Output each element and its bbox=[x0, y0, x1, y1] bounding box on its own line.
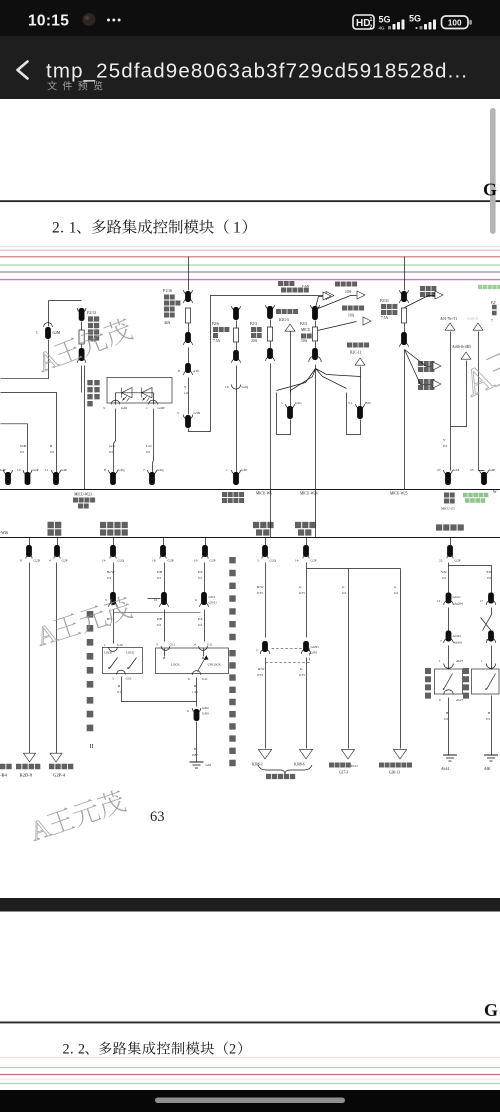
arrow up 4R3 bbox=[461, 352, 471, 359]
svg-text:CAN: CAN bbox=[302, 284, 310, 288]
svg-text:G61: G61 bbox=[206, 763, 212, 767]
wire loop bbox=[347, 393, 361, 435]
page2 colored rule 3 bbox=[0, 1074, 500, 1076]
svg-text:2: 2 bbox=[229, 1042, 236, 1058]
svg-text:-W26: -W26 bbox=[0, 531, 8, 535]
wire bbox=[188, 348, 190, 364]
svg-text:A10: A10 bbox=[193, 369, 199, 373]
svg-text:3: 3 bbox=[112, 677, 114, 681]
wire stub left 2 bbox=[114, 612, 201, 614]
svg-text:1: 1 bbox=[36, 331, 38, 335]
MICU bus line bbox=[0, 489, 500, 491]
svg-text:0.5: 0.5 bbox=[443, 444, 448, 448]
wire P/B bbox=[164, 563, 166, 593]
svg-text:5G: 5G bbox=[409, 14, 421, 24]
svg-text:0.5: 0.5 bbox=[342, 591, 347, 595]
svg-text:B/Y: B/Y bbox=[107, 617, 113, 621]
svg-text:G2P: G2P bbox=[33, 468, 39, 472]
svg-text:P/B: P/B bbox=[157, 570, 163, 574]
dashed link vertical bbox=[309, 649, 311, 663]
svg-text:Ab27: Ab27 bbox=[456, 698, 463, 702]
svg-text:B2D-8: B2D-8 bbox=[20, 773, 33, 778]
svg-text:100: 100 bbox=[448, 19, 462, 28]
wire R/W bbox=[265, 563, 267, 638]
svg-text:G2Q: G2Q bbox=[157, 468, 164, 472]
svg-text:G2P: G2P bbox=[489, 468, 495, 472]
svg-text:LOCK: LOCK bbox=[171, 663, 180, 667]
photodiode D2 bbox=[142, 388, 153, 398]
svg-text:1: 1 bbox=[146, 406, 148, 410]
svg-text:19: 19 bbox=[225, 385, 229, 389]
svg-text:MICU-W25: MICU-W25 bbox=[390, 492, 408, 496]
svg-text:LOCK: LOCK bbox=[104, 651, 113, 655]
svg-text:G2P-4: G2P-4 bbox=[53, 773, 66, 778]
svg-text:0.5: 0.5 bbox=[107, 576, 112, 580]
brace 室外灯系统 bbox=[258, 765, 312, 774]
svg-text:G2P: G2P bbox=[0, 468, 6, 472]
svg-text:G2P: G2P bbox=[311, 559, 317, 563]
svg-text:G2P: G2P bbox=[168, 559, 174, 563]
label 转传信号 MICU-Z3 bbox=[444, 493, 455, 498]
wire Br/W bbox=[113, 563, 115, 593]
svg-text:UNLOCK: UNLOCK bbox=[208, 663, 222, 667]
arrow up T1 bbox=[445, 323, 455, 330]
arrow 同左窗电 B2C-11 bbox=[347, 343, 369, 348]
wire bbox=[448, 608, 450, 631]
fuse F1/16 40A bbox=[185, 308, 190, 323]
svg-text:Ag204: Ag204 bbox=[454, 602, 463, 606]
arrow W1CU电源 10A bbox=[342, 306, 364, 311]
svg-text:5G: 5G bbox=[379, 15, 391, 25]
connector right 2 bbox=[488, 631, 494, 642]
wire down to G20 bbox=[236, 366, 238, 474]
svg-text:Ab301: Ab301 bbox=[454, 641, 463, 645]
dim app icon bbox=[83, 13, 96, 26]
subtitle 文件预览 bbox=[47, 81, 56, 90]
page2 colored rule 5 bbox=[0, 1083, 500, 1085]
connector 14 G2Q bbox=[113, 538, 115, 546]
svg-text:4: 4 bbox=[194, 643, 196, 647]
connector pin 8 A10 bbox=[185, 363, 191, 373]
svg-text:18: 18 bbox=[152, 559, 156, 563]
svg-text:F2/: F2/ bbox=[491, 301, 496, 305]
wire to ground bbox=[448, 698, 450, 756]
wire stub to left edge bbox=[1, 378, 49, 380]
ground A60 bbox=[484, 754, 498, 756]
connector 3 G2Q bbox=[265, 538, 267, 546]
svg-text:20A: 20A bbox=[251, 339, 258, 343]
svg-text:Br/W: Br/W bbox=[107, 570, 115, 574]
svg-text:0.5: 0.5 bbox=[487, 576, 492, 580]
main lock switch box bbox=[156, 648, 229, 674]
wire stub left bbox=[148, 598, 161, 600]
svg-text:F2/3: F2/3 bbox=[250, 322, 257, 326]
svg-text:8: 8 bbox=[104, 468, 106, 472]
connector 22 G2P bbox=[450, 538, 452, 546]
colored rule 1 bbox=[0, 246, 500, 248]
arrow 开关二标电源 mid bbox=[418, 361, 434, 366]
svg-text:G10: G10 bbox=[117, 643, 123, 647]
HD badge bbox=[353, 15, 374, 29]
svg-text:0.1: 0.1 bbox=[117, 690, 122, 694]
svg-text:G11: G11 bbox=[207, 643, 213, 647]
arrow up G2P-25 bbox=[473, 323, 483, 330]
svg-text:Ac201: Ac201 bbox=[453, 634, 462, 638]
off-page triangle KJ08-3 bbox=[258, 749, 271, 759]
colored rule 3 bbox=[0, 256, 500, 258]
battery bbox=[442, 16, 469, 29]
svg-text:G2Q: G2Q bbox=[118, 468, 125, 472]
connector 14 G2P bbox=[306, 538, 308, 546]
colored rule 6 bbox=[0, 279, 500, 281]
svg-text:0.5: 0.5 bbox=[20, 450, 25, 454]
svg-text:MICU-Z3: MICU-Z3 bbox=[441, 507, 455, 511]
wire down to section bbox=[315, 365, 317, 538]
svg-text:G2P: G2P bbox=[62, 559, 68, 563]
connector pin bbox=[184, 290, 193, 294]
wire B bbox=[113, 610, 115, 644]
svg-text:2. 1: 2. 1 bbox=[52, 220, 77, 237]
neutral switch box 2 bbox=[472, 669, 500, 694]
svg-text:27: 27 bbox=[437, 468, 441, 472]
wire down to bus bbox=[404, 350, 406, 490]
neutral switch box 1 bbox=[435, 669, 463, 694]
svg-text:0.75: 0.75 bbox=[257, 591, 263, 595]
svg-text:22: 22 bbox=[439, 559, 443, 563]
wire loop bbox=[277, 393, 291, 435]
colored rule 4 bbox=[0, 264, 500, 266]
header 右前门闭锁器位置 bbox=[100, 522, 128, 528]
svg-text:1: 1 bbox=[226, 468, 228, 472]
connector pin bbox=[79, 348, 85, 361]
svg-text:Ab14: Ab14 bbox=[441, 767, 449, 771]
wire P/L 2 bbox=[204, 610, 206, 642]
svg-text:0.5: 0.5 bbox=[157, 623, 162, 627]
right edge green label bbox=[478, 285, 500, 289]
connector G201/GJ201 bbox=[303, 641, 309, 652]
header bar bbox=[0, 36, 500, 99]
wire W/B from left edge bbox=[1, 424, 28, 474]
wire from F2/13 down bbox=[84, 366, 86, 490]
wire to junction bbox=[122, 677, 197, 702]
svg-text:G2P: G2P bbox=[210, 559, 216, 563]
svg-text:G2P: G2P bbox=[455, 559, 461, 563]
svg-text:GJ10: GJ10 bbox=[209, 595, 216, 599]
status bar bbox=[0, 0, 500, 36]
off-page triangle G30-13 bbox=[393, 749, 406, 759]
wire to ground bbox=[196, 722, 198, 759]
svg-text:40A: 40A bbox=[164, 321, 171, 325]
svg-text:7.: 7. bbox=[491, 319, 494, 323]
colored rule 5 bbox=[0, 271, 500, 273]
wire bbox=[81, 366, 83, 393]
svg-text:2: 2 bbox=[370, 25, 373, 31]
connector F2/13 top bbox=[77, 308, 86, 312]
svg-text:11: 11 bbox=[45, 468, 49, 472]
svg-text:1: 1 bbox=[256, 648, 258, 652]
wire R/W 2 bbox=[265, 658, 267, 749]
svg-text:MICU-W24: MICU-W24 bbox=[300, 492, 318, 496]
wire bbox=[315, 321, 317, 328]
svg-text:G2P: G2P bbox=[61, 468, 67, 472]
svg-text:10:15: 10:15 bbox=[28, 13, 69, 30]
svg-text:MICU-W23: MICU-W23 bbox=[74, 493, 92, 497]
wire 悬空 1 bbox=[29, 563, 31, 754]
wire Gr/L bbox=[115, 409, 117, 441]
split Y/R wires bbox=[449, 563, 492, 566]
svg-text:G2Q: G2Q bbox=[118, 559, 125, 563]
svg-text:GJ211: GJ211 bbox=[453, 595, 462, 599]
svg-text:G2D: G2D bbox=[34, 559, 41, 563]
svg-text:tmp_25dfad9e8063ab3f729cd59185: tmp_25dfad9e8063ab3f729cd5918528d... bbox=[46, 60, 468, 83]
svg-text:G2Q: G2Q bbox=[270, 559, 277, 563]
pin 1 Ab37 bbox=[448, 646, 450, 670]
svg-text:II: II bbox=[90, 744, 94, 750]
svg-text:0.5: 0.5 bbox=[198, 623, 203, 627]
svg-text:0.5: 0.5 bbox=[444, 717, 449, 721]
header N档信号 bbox=[436, 524, 464, 530]
svg-text:G11: G11 bbox=[170, 643, 176, 647]
svg-text:-B4: -B4 bbox=[0, 773, 8, 778]
arrow MICU电源 10A bbox=[335, 282, 357, 287]
arrow 悬空备用 K2G-5 bbox=[276, 309, 298, 314]
svg-text:G: G bbox=[483, 180, 497, 200]
svg-text:GJ02: GJ02 bbox=[202, 706, 209, 710]
svg-text:G49: G49 bbox=[121, 406, 127, 410]
svg-text:3: 3 bbox=[257, 559, 259, 563]
svg-text:5: 5 bbox=[177, 411, 179, 415]
svg-text:A60: A60 bbox=[484, 767, 490, 771]
svg-text:0.75: 0.75 bbox=[299, 591, 305, 595]
green note bbox=[463, 493, 488, 498]
fuse F2/3 MICU 10A bbox=[312, 327, 317, 341]
svg-text:G20: G20 bbox=[241, 468, 247, 472]
svg-text:Ab27: Ab27 bbox=[456, 659, 463, 663]
svg-text:G4W: G4W bbox=[158, 406, 166, 410]
key lock switch box bbox=[102, 647, 142, 673]
svg-text:ECU: ECU bbox=[351, 764, 358, 768]
svg-text:7.5A: 7.5A bbox=[213, 339, 220, 343]
svg-text:F2/3: F2/3 bbox=[300, 322, 307, 326]
header 倒车灯电源 bbox=[295, 522, 316, 528]
svg-text:G2X: G2X bbox=[453, 468, 460, 472]
connector F2/3 top bbox=[266, 305, 275, 309]
svg-text:0.87: 0.87 bbox=[192, 753, 198, 757]
wire Y 1.0 bbox=[188, 378, 190, 415]
svg-text:0.5: 0.5 bbox=[394, 591, 399, 595]
vertical label 闭锁器II bbox=[87, 697, 94, 731]
wire F2/31 feed bbox=[404, 257, 406, 291]
sensor inner wiring bbox=[116, 393, 154, 405]
svg-text:63: 63 bbox=[150, 809, 165, 825]
page2 colored rule 1 bbox=[0, 1057, 500, 1059]
watermark 1 bbox=[33, 315, 135, 378]
svg-text:14: 14 bbox=[102, 559, 106, 563]
svg-text:G: G bbox=[484, 1000, 498, 1020]
svg-text:1: 1 bbox=[104, 643, 106, 647]
connector pin bbox=[267, 348, 273, 359]
connector 18 G2P bbox=[163, 538, 165, 546]
svg-text:0.5: 0.5 bbox=[157, 576, 162, 580]
watermark 2 bbox=[33, 593, 135, 652]
connector F2/6 top bbox=[232, 306, 241, 310]
svg-text:LOCK: LOCK bbox=[126, 651, 135, 655]
connector 4 G2P bbox=[57, 538, 59, 546]
vertical label 空档开关 2 bbox=[463, 668, 469, 699]
wire 悬空 2 bbox=[56, 563, 58, 754]
wire bbox=[48, 301, 50, 327]
svg-text:1.25: 1.25 bbox=[192, 690, 198, 694]
wire loop to module bbox=[189, 429, 211, 432]
svg-text:10A: 10A bbox=[348, 314, 355, 318]
wire bbox=[48, 340, 50, 379]
svg-text:GJ01: GJ01 bbox=[311, 651, 318, 655]
scrollbar bbox=[490, 108, 496, 234]
svg-text:G2M: G2M bbox=[53, 331, 61, 335]
switch lever bbox=[198, 656, 207, 672]
vertical label 集成在玻璃升降器开关 bbox=[229, 650, 235, 766]
ground G61 bbox=[196, 759, 198, 763]
arrow 开关二标电源 top bbox=[420, 286, 436, 291]
section divider line bbox=[0, 537, 500, 539]
svg-text:0.5: 0.5 bbox=[486, 717, 491, 721]
fuse F2/3 bbox=[267, 327, 272, 341]
svg-text:7: 7 bbox=[143, 468, 145, 472]
svg-text:G2Q: G2Q bbox=[242, 385, 249, 389]
fuse F2/6 bbox=[233, 328, 238, 342]
svg-text:G30-13: G30-13 bbox=[389, 771, 400, 775]
wire bbox=[188, 324, 190, 333]
off-page triangle B2D-8 bbox=[23, 753, 35, 762]
svg-text:8: 8 bbox=[178, 369, 180, 373]
svg-text:Y/R: Y/R bbox=[486, 570, 492, 574]
svg-text:W: W bbox=[493, 490, 497, 494]
svg-text:A01-76+T1: A01-76+T1 bbox=[440, 317, 457, 321]
svg-text:7.5A: 7.5A bbox=[381, 316, 388, 320]
svg-text:K2G-5: K2G-5 bbox=[279, 318, 289, 322]
svg-text:14: 14 bbox=[295, 559, 299, 563]
wire P/B 2 bbox=[164, 610, 166, 642]
svg-text:2. 2: 2. 2 bbox=[63, 1042, 86, 1058]
svg-text:F2/6: F2/6 bbox=[212, 322, 219, 326]
svg-text:G10: G10 bbox=[126, 677, 132, 681]
svg-text:MICU: MICU bbox=[301, 328, 311, 332]
vertical label 右前门锁总开关 bbox=[229, 557, 235, 640]
svg-text:L/O: L/O bbox=[146, 444, 152, 448]
svg-text:5: 5 bbox=[281, 401, 283, 405]
svg-text:F1/16: F1/16 bbox=[163, 289, 172, 293]
fuse F2/31 bbox=[401, 308, 406, 323]
wire P/L bbox=[204, 563, 206, 593]
wire F1/16 feed bbox=[188, 257, 190, 291]
watermark 3 bbox=[26, 786, 128, 846]
wire stub to left edge (B) bbox=[1, 393, 57, 474]
svg-text:0.75: 0.75 bbox=[299, 673, 305, 677]
svg-text:B2C-11: B2C-11 bbox=[350, 351, 361, 355]
svg-text:10: 10 bbox=[17, 468, 21, 472]
svg-text:0.5: 0.5 bbox=[109, 450, 114, 454]
svg-text:19: 19 bbox=[194, 559, 198, 563]
arrow 开关二标电源 low bbox=[418, 379, 434, 384]
svg-text:Ac05-8: Ac05-8 bbox=[467, 317, 478, 321]
connector pin bbox=[401, 332, 407, 345]
photodiode D1 bbox=[122, 388, 133, 398]
connector 8 G2D bbox=[29, 538, 31, 546]
fuse F2/13 7.5A bbox=[79, 330, 84, 344]
home indicator pill bbox=[155, 1098, 345, 1104]
svg-text:F2/31: F2/31 bbox=[380, 299, 389, 303]
svg-text:P/B: P/B bbox=[157, 617, 163, 621]
svg-text:GJ101: GJ101 bbox=[209, 601, 218, 605]
wire link top-left bbox=[49, 300, 82, 302]
svg-text:4G: 4G bbox=[379, 26, 386, 31]
label 内部后视灯继电器 bbox=[222, 492, 244, 497]
svg-text:3: 3 bbox=[103, 406, 105, 410]
ground Ab14 bbox=[443, 754, 457, 756]
wire down bbox=[196, 678, 198, 707]
svg-text:17: 17 bbox=[480, 599, 484, 603]
page2 colored rule 4 bbox=[0, 1078, 500, 1080]
svg-text:G11: G11 bbox=[202, 677, 208, 681]
vertical label 空档开关 1 bbox=[425, 668, 431, 699]
svg-text:1: 1 bbox=[370, 17, 373, 23]
svg-text:0.75: 0.75 bbox=[257, 673, 263, 677]
labels 悬空备用 etc bbox=[0, 764, 12, 769]
connector pin bbox=[312, 348, 318, 360]
svg-text:KJ08-6: KJ08-6 bbox=[294, 763, 305, 767]
connector 19 G2P bbox=[205, 538, 207, 546]
svg-text:W/B: W/B bbox=[20, 444, 27, 448]
svg-text:R/W: R/W bbox=[258, 667, 265, 671]
svg-text:MICU-W6: MICU-W6 bbox=[256, 492, 272, 496]
wire bbox=[81, 322, 83, 331]
svg-text:G3N: G3N bbox=[194, 411, 201, 415]
svg-text:G2G: G2G bbox=[295, 401, 302, 405]
module feed arrow line bbox=[317, 295, 327, 297]
svg-text:G17-3: G17-3 bbox=[339, 771, 348, 775]
svg-text:HD: HD bbox=[356, 18, 370, 29]
svg-text:8: 8 bbox=[20, 559, 22, 563]
light sensor box bbox=[107, 378, 172, 404]
svg-text:KJ08-3: KJ08-3 bbox=[252, 763, 263, 767]
svg-text:P/L: P/L bbox=[198, 617, 203, 621]
off-page triangle KJ08-6 bbox=[299, 749, 312, 759]
svg-text:6: 6 bbox=[188, 677, 190, 681]
svg-text:Ac06-8+4R3: Ac06-8+4R3 bbox=[452, 345, 471, 349]
svg-text:0.5: 0.5 bbox=[50, 450, 55, 454]
wire down bbox=[270, 364, 272, 538]
svg-text:0.5: 0.5 bbox=[442, 576, 447, 580]
svg-text:10A: 10A bbox=[301, 339, 308, 343]
connector pin bbox=[400, 290, 409, 294]
svg-text:3: 3 bbox=[156, 643, 158, 647]
svg-text:P/L: P/L bbox=[198, 570, 203, 574]
off-page triangle G2P-4 bbox=[50, 753, 62, 762]
switch lever bbox=[110, 658, 118, 669]
svg-text:B2C: B2C bbox=[365, 401, 372, 405]
svg-text:GJ09: GJ09 bbox=[202, 712, 209, 716]
svg-text:3.1: 3.1 bbox=[348, 401, 353, 405]
page separator band bbox=[0, 898, 500, 912]
bottom nav bar bbox=[0, 1090, 500, 1112]
wire G 0.75 bbox=[306, 658, 308, 749]
svg-text:25: 25 bbox=[470, 468, 474, 472]
svg-text:Y/R: Y/R bbox=[441, 570, 447, 574]
fan-out wires bbox=[291, 369, 316, 393]
svg-text:3: 3 bbox=[105, 598, 107, 602]
svg-text:4: 4 bbox=[49, 559, 51, 563]
vertical label 门锁按键开关 bbox=[87, 611, 94, 688]
